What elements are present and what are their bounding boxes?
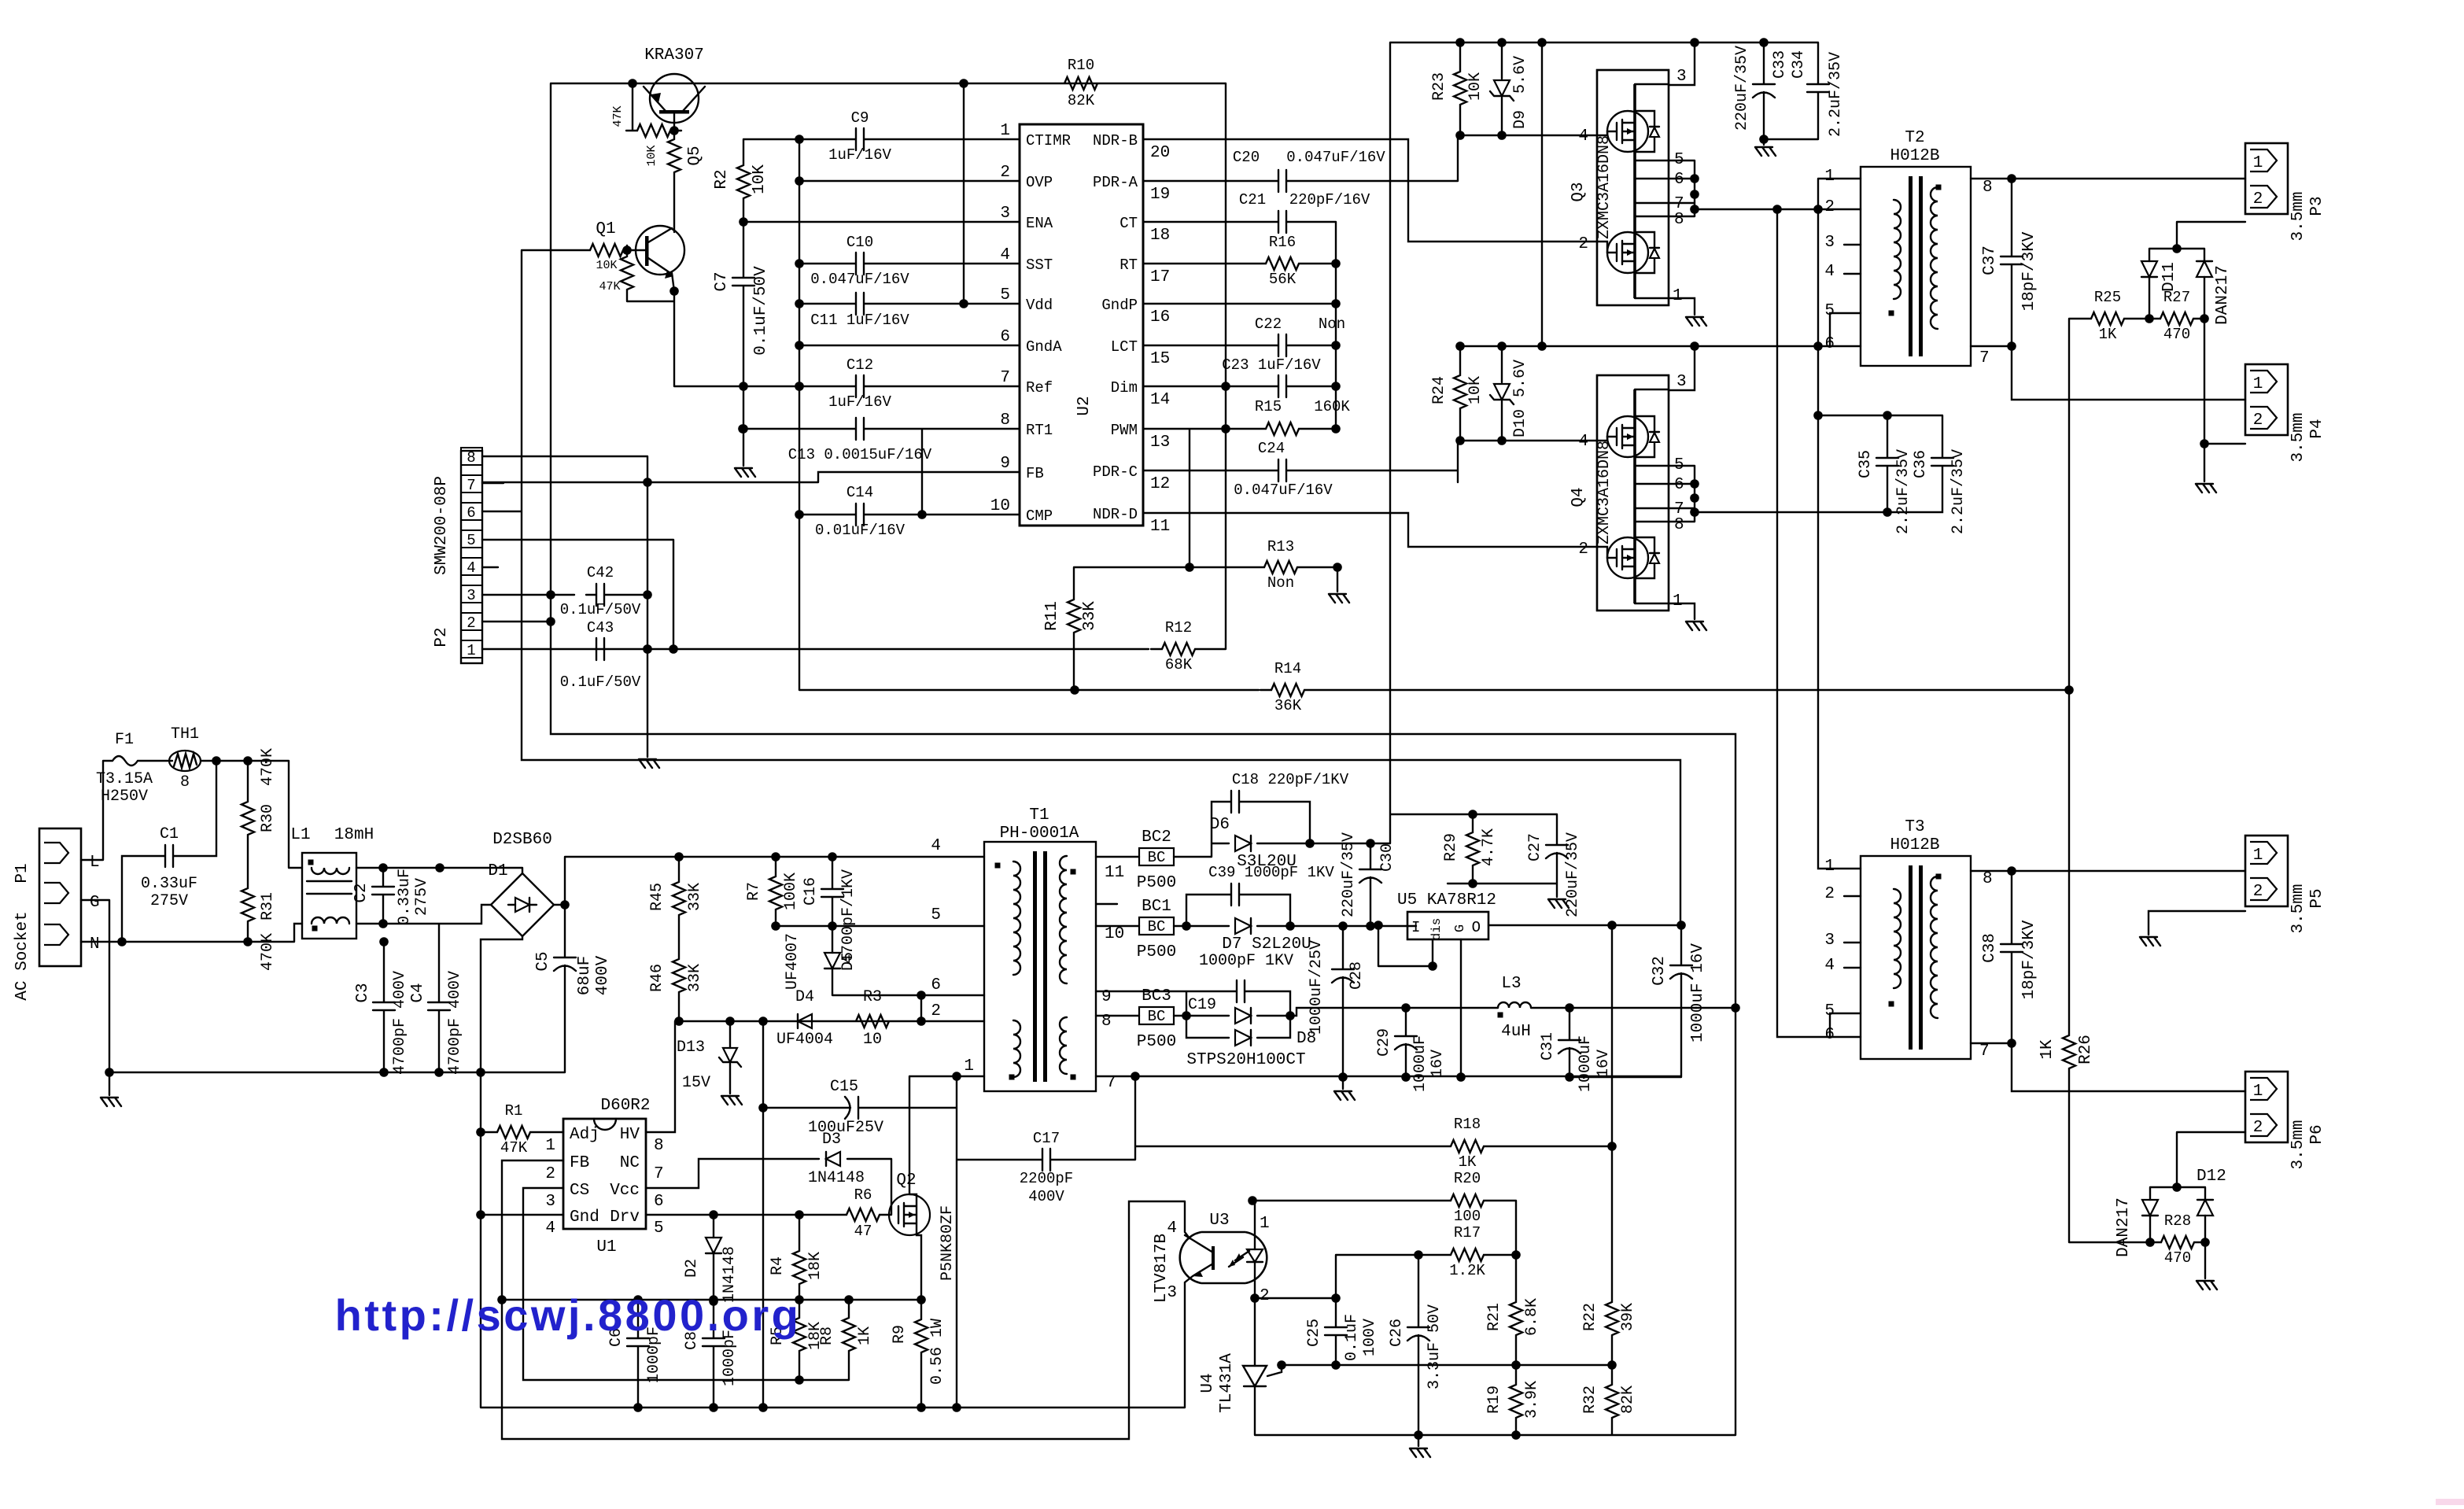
svg-text:16V: 16V [1595,1050,1613,1078]
svg-text:C37: C37 [1981,245,1999,275]
svg-text:4700pF 400V: 4700pF 400V [446,971,464,1075]
svg-text:2: 2 [467,614,475,632]
svg-text:NDR-D: NDR-D [1093,506,1138,523]
svg-text:Dim: Dim [1111,379,1138,397]
svg-text:4: 4 [1167,1219,1177,1238]
svg-text:R24: R24 [1430,376,1448,404]
svg-text:D8: D8 [1297,1030,1316,1048]
svg-text:16V: 16V [1429,1050,1447,1078]
svg-text:1K: 1K [1459,1153,1477,1171]
svg-text:1000uF 16V: 1000uF 16V [1689,943,1707,1042]
svg-text:C42: C42 [587,564,614,581]
svg-text:C26: C26 [1388,1319,1406,1347]
svg-text:19: 19 [1150,186,1170,204]
svg-text:6: 6 [931,976,941,994]
svg-text:AC Socket: AC Socket [13,911,31,1000]
svg-text:3: 3 [1676,373,1687,391]
svg-text:1: 1 [964,1057,974,1075]
svg-text:0.01uF/16V: 0.01uF/16V [815,522,906,539]
svg-text:ZXMC3A16DN8: ZXMC3A16DN8 [1595,135,1614,239]
svg-text:C4: C4 [409,983,427,1002]
svg-text:http://scwj.8800.org: http://scwj.8800.org [335,1290,802,1340]
svg-text:BC3: BC3 [1142,987,1171,1005]
svg-text:36K: 36K [1274,697,1302,714]
svg-text:7: 7 [1106,1074,1116,1092]
svg-text:P1: P1 [13,863,31,883]
svg-text:C23 1uF/16V: C23 1uF/16V [1222,356,1321,374]
svg-text:16: 16 [1150,308,1170,327]
svg-text:7: 7 [1000,369,1010,387]
svg-text:C32: C32 [1651,956,1669,986]
svg-text:C33: C33 [1771,50,1789,79]
svg-text:10K: 10K [645,145,658,166]
svg-text:D12: D12 [2197,1168,2226,1186]
svg-text:ZXMC3A16DN8: ZXMC3A16DN8 [1595,441,1614,544]
svg-text:C22: C22 [1255,315,1282,333]
svg-text:3.5mm: 3.5mm [2289,884,2307,933]
svg-text:1: 1 [1673,592,1683,611]
svg-text:47: 47 [854,1223,872,1240]
svg-text:18: 18 [1150,227,1170,245]
svg-text:CTIMR: CTIMR [1026,132,1071,149]
svg-text:C12: C12 [847,356,873,374]
svg-text:C3: C3 [354,983,372,1002]
svg-text:470: 470 [2164,1249,2191,1267]
svg-text:R12: R12 [1165,619,1192,636]
svg-text:1000uF: 1000uF [1577,1035,1595,1092]
svg-text:C7: C7 [713,271,731,291]
svg-text:R14: R14 [1274,660,1301,677]
svg-text:BC1: BC1 [1142,898,1171,916]
svg-text:R32: R32 [1581,1385,1599,1414]
svg-text:SMW200-08P: SMW200-08P [433,476,451,575]
svg-text:1uF/16V: 1uF/16V [828,393,891,411]
svg-text:2: 2 [545,1165,555,1183]
svg-text:7: 7 [1979,1042,1990,1061]
svg-text:G: G [90,894,100,912]
svg-text:T1: T1 [1029,806,1049,825]
svg-text:47K: 47K [599,280,620,293]
svg-text:D7 S2L20U: D7 S2L20U [1222,935,1311,954]
svg-text:4: 4 [1824,263,1835,281]
svg-text:10K: 10K [751,164,769,194]
svg-text:6: 6 [654,1193,664,1211]
svg-text:R7: R7 [745,882,763,901]
svg-text:P4: P4 [2308,419,2326,438]
svg-text:C21: C21 [1239,191,1266,208]
svg-text:UF4007: UF4007 [784,933,802,990]
svg-text:33K: 33K [686,883,704,911]
svg-text:P5: P5 [2308,888,2326,908]
svg-text:R23: R23 [1430,72,1448,101]
svg-text:4: 4 [931,837,941,855]
svg-text:10K: 10K [1466,72,1485,101]
svg-text:20: 20 [1150,144,1170,162]
svg-text:9: 9 [1000,455,1010,473]
svg-text:R21: R21 [1485,1303,1503,1331]
svg-text:2200pF: 2200pF [1020,1170,1073,1187]
svg-text:18pF/3KV: 18pF/3KV [2020,231,2038,311]
svg-text:Non: Non [1267,574,1294,592]
svg-text:15V: 15V [682,1074,710,1092]
svg-text:PH-0001A: PH-0001A [1000,825,1079,843]
svg-text:dis: dis [1429,918,1444,941]
svg-text:0.047uF/16V: 0.047uF/16V [810,271,909,288]
svg-text:5: 5 [1674,456,1684,474]
svg-text:C36: C36 [1912,450,1930,478]
svg-text:P3: P3 [2308,196,2326,216]
svg-text:470: 470 [2163,326,2190,343]
svg-text:H012B: H012B [1890,147,1939,165]
svg-text:C16: C16 [802,877,820,906]
svg-text:100K: 100K [782,873,800,910]
svg-text:13: 13 [1150,434,1170,452]
svg-text:0.047uF/16V: 0.047uF/16V [1234,481,1333,499]
svg-text:4700pF/1KV: 4700pF/1KV [839,869,858,964]
svg-text:4uH: 4uH [1501,1023,1531,1041]
svg-text:C9: C9 [851,109,869,127]
svg-text:C27: C27 [1526,833,1544,861]
svg-text:R22: R22 [1581,1303,1599,1331]
svg-text:N: N [90,935,100,954]
svg-text:P2: P2 [433,627,451,647]
svg-text:3: 3 [1676,68,1687,86]
svg-text:CT: CT [1119,215,1138,232]
svg-text:C31: C31 [1539,1032,1557,1061]
svg-text:1: 1 [2253,154,2263,172]
svg-text:Drv: Drv [610,1208,640,1227]
svg-text:1: 1 [1824,858,1835,876]
svg-text:6: 6 [1824,335,1835,353]
svg-text:U2: U2 [1075,396,1094,415]
svg-text:2: 2 [2253,190,2263,208]
svg-text:2: 2 [1578,235,1588,253]
svg-text:CMP: CMP [1026,507,1053,525]
svg-text:4: 4 [1578,433,1588,451]
svg-text:R17: R17 [1454,1224,1481,1242]
svg-text:1: 1 [1673,287,1683,305]
svg-text:4: 4 [1578,127,1588,146]
svg-text:H250V: H250V [101,788,148,806]
svg-text:R1: R1 [505,1102,523,1120]
svg-text:0.1uF/50V: 0.1uF/50V [560,673,641,691]
svg-text:D2SB60: D2SB60 [492,831,552,849]
svg-text:5: 5 [1674,151,1684,169]
svg-text:F1: F1 [115,731,134,749]
svg-text:220uF/35V: 220uF/35V [1564,832,1582,917]
svg-text:6: 6 [1824,1026,1835,1044]
svg-text:C25: C25 [1305,1319,1323,1347]
svg-text:1: 1 [467,642,475,659]
svg-text:10K: 10K [1466,376,1485,404]
svg-text:C24: C24 [1258,440,1285,457]
svg-text:BC2: BC2 [1142,828,1171,847]
svg-text:3: 3 [1167,1284,1177,1302]
svg-text:0.047uF/16V: 0.047uF/16V [1286,149,1385,166]
svg-text:I: I [1411,919,1420,936]
svg-text:33K: 33K [1081,601,1099,631]
svg-text:C30: C30 [1378,843,1396,872]
svg-text:5.6V: 5.6V [1511,56,1529,94]
svg-text:LCT: LCT [1111,338,1138,356]
svg-text:C35: C35 [1857,450,1875,478]
svg-text:7: 7 [467,477,475,494]
svg-text:Vcc: Vcc [610,1182,640,1200]
svg-text:D6: D6 [1210,816,1230,834]
svg-text:C20: C20 [1233,149,1260,166]
svg-text:R15: R15 [1255,398,1282,415]
svg-text:R26: R26 [2077,1035,2095,1064]
svg-text:R29: R29 [1442,833,1460,861]
svg-text:12: 12 [1150,475,1170,493]
svg-text:D1: D1 [488,862,507,880]
svg-text:D2: D2 [683,1259,701,1278]
svg-text:D10: D10 [1511,409,1529,437]
svg-text:5.6V: 5.6V [1511,360,1529,397]
svg-text:2: 2 [2253,411,2263,430]
svg-text:P500: P500 [1137,943,1176,961]
svg-text:Gnd: Gnd [570,1208,599,1227]
svg-text:15: 15 [1150,350,1170,368]
svg-text:R18: R18 [1454,1116,1481,1133]
svg-text:1: 1 [1824,168,1835,186]
svg-text:6: 6 [1674,476,1684,494]
svg-text:L: L [90,854,100,872]
svg-text:C34: C34 [1790,50,1808,79]
svg-text:ENA: ENA [1026,215,1053,232]
svg-text:9: 9 [1101,988,1112,1006]
svg-text:6: 6 [467,504,475,522]
svg-text:2.2uF/35V: 2.2uF/35V [1894,449,1913,534]
svg-text:56K: 56K [1269,271,1297,288]
svg-text:2: 2 [1260,1287,1270,1305]
svg-text:FB: FB [570,1154,589,1172]
svg-text:10: 10 [863,1031,882,1049]
svg-text:RT1: RT1 [1026,422,1053,439]
svg-text:R45: R45 [648,883,666,911]
svg-text:4: 4 [1000,246,1010,264]
svg-text:GndA: GndA [1026,338,1062,356]
svg-text:10: 10 [990,497,1010,515]
svg-text:8: 8 [1983,870,1993,888]
svg-text:1000uF/25V: 1000uF/25V [1308,940,1326,1035]
svg-text:C2: C2 [352,883,371,902]
svg-text:2: 2 [2253,883,2263,901]
svg-text:0.33uF: 0.33uF [141,875,197,893]
svg-text:82K: 82K [1068,92,1095,109]
svg-text:8: 8 [467,449,475,467]
svg-text:D13: D13 [677,1039,705,1057]
svg-text:NC: NC [620,1154,640,1172]
svg-text:Adj: Adj [570,1126,599,1144]
svg-text:1uF/16V: 1uF/16V [828,146,891,164]
svg-text:0.1uF/50V: 0.1uF/50V [752,266,770,356]
svg-text:Non: Non [1319,315,1345,333]
svg-text:STPS20H100CT: STPS20H100CT [1186,1051,1305,1069]
svg-text:0.33uF: 0.33uF [396,869,414,925]
svg-text:33K: 33K [686,964,704,992]
svg-text:4: 4 [545,1219,555,1238]
svg-text:R20: R20 [1454,1170,1481,1187]
svg-text:NDR-B: NDR-B [1093,132,1138,149]
svg-text:6.8K: 6.8K [1523,1298,1541,1336]
svg-text:R28: R28 [2164,1212,2191,1230]
svg-text:470K: 470K [259,933,277,971]
svg-text:R27: R27 [2163,289,2190,306]
svg-text:1: 1 [2253,847,2263,865]
svg-text:C19: C19 [1188,996,1216,1014]
svg-text:Q3: Q3 [1570,182,1588,201]
svg-text:7: 7 [654,1165,664,1183]
svg-text:PDR-C: PDR-C [1093,463,1138,481]
svg-text:R25: R25 [2094,289,2121,306]
svg-text:TH1: TH1 [171,725,199,743]
svg-text:4: 4 [467,559,475,577]
svg-text:D4: D4 [795,988,814,1006]
svg-text:R3: R3 [863,988,882,1006]
svg-text:C17: C17 [1033,1130,1060,1147]
svg-text:BC: BC [1148,849,1166,866]
svg-text:G: G [1453,924,1468,932]
svg-text:D11: D11 [2160,262,2178,292]
svg-text:4: 4 [1824,957,1835,975]
svg-text:D3: D3 [822,1131,841,1149]
svg-text:8: 8 [1674,516,1684,534]
svg-text:Q2: Q2 [896,1171,916,1190]
svg-text:R16: R16 [1269,234,1296,251]
svg-text:470K: 470K [259,748,277,786]
svg-text:C14: C14 [847,484,873,501]
svg-text:L1: L1 [290,826,310,844]
svg-text:5: 5 [931,906,941,924]
svg-text:10K: 10K [596,259,617,272]
svg-text:275V: 275V [150,892,188,910]
svg-text:Ref: Ref [1026,379,1053,397]
svg-text:R9: R9 [891,1325,909,1344]
svg-text:3: 3 [1824,932,1835,950]
svg-text:14: 14 [1150,391,1170,409]
svg-text:0.1uF/50V: 0.1uF/50V [560,601,641,618]
svg-text:220pF/16V: 220pF/16V [1289,191,1370,208]
svg-text:KRA307: KRA307 [644,46,704,65]
svg-text:82K: 82K [1619,1385,1637,1414]
svg-text:5: 5 [1824,1002,1835,1020]
svg-text:2: 2 [931,1002,941,1020]
svg-text:U1: U1 [596,1238,616,1256]
svg-text:T3.15A: T3.15A [96,770,153,788]
svg-text:6: 6 [1674,171,1684,189]
svg-text:R13: R13 [1267,538,1294,555]
svg-text:C5: C5 [534,951,552,971]
svg-text:8: 8 [1983,179,1993,197]
svg-text:C1: C1 [160,825,179,843]
svg-text:P5NK80ZF: P5NK80ZF [939,1205,957,1281]
svg-text:C11 1uF/16V: C11 1uF/16V [810,312,909,329]
svg-text:5: 5 [1000,286,1010,304]
svg-text:1: 1 [545,1137,555,1155]
svg-text:1000pF 1KV: 1000pF 1KV [1199,952,1293,970]
svg-text:47K: 47K [500,1139,528,1157]
svg-text:3: 3 [1824,234,1835,252]
svg-text:100uF25V: 100uF25V [808,1119,883,1137]
svg-text:C38: C38 [1981,933,1999,963]
svg-text:4.7K: 4.7K [1480,828,1498,866]
svg-text:HV: HV [620,1126,640,1144]
svg-text:T3: T3 [1905,818,1924,836]
svg-text:400V: 400V [1028,1188,1064,1205]
svg-text:1K: 1K [2038,1039,2056,1060]
svg-text:3.5mm: 3.5mm [2289,191,2307,241]
svg-text:C18 220pF/1KV: C18 220pF/1KV [1232,771,1349,788]
svg-text:TL431A: TL431A [1218,1353,1236,1413]
svg-text:D9: D9 [1511,110,1529,129]
svg-text:3.5mm: 3.5mm [2289,412,2307,462]
svg-text:3: 3 [545,1193,555,1211]
svg-text:Q4: Q4 [1570,487,1588,507]
svg-text:R11: R11 [1043,601,1061,631]
svg-text:P500: P500 [1137,874,1176,892]
svg-text:1: 1 [2253,375,2263,393]
svg-text:C28: C28 [1348,961,1366,990]
svg-text:1K: 1K [2099,326,2117,343]
svg-text:0.56 1W: 0.56 1W [928,1319,946,1385]
svg-text:C15: C15 [830,1078,858,1096]
svg-text:100: 100 [1454,1208,1481,1225]
svg-text:UF4004: UF4004 [776,1031,833,1049]
svg-text:6: 6 [1000,328,1010,346]
svg-text:1000uF: 1000uF [1411,1035,1429,1092]
svg-text:PDR-A: PDR-A [1093,174,1138,191]
svg-text:D5: D5 [839,952,858,971]
svg-text:2: 2 [1578,541,1588,559]
svg-text:18K: 18K [806,1252,824,1280]
svg-text:18pF/3KV: 18pF/3KV [2020,920,2038,999]
svg-text:2: 2 [1824,885,1835,903]
svg-text:3: 3 [1000,205,1010,223]
svg-text:1: 1 [2253,1083,2263,1101]
svg-text:100V: 100V [1361,1319,1379,1356]
svg-text:39K: 39K [1619,1303,1637,1331]
svg-text:U5 KA78R12: U5 KA78R12 [1397,891,1496,909]
svg-text:5: 5 [467,532,475,549]
svg-text:C13 0.0015uF/16V: C13 0.0015uF/16V [788,446,932,463]
svg-text:R2: R2 [713,169,731,189]
svg-text:C29: C29 [1375,1028,1393,1057]
svg-text:11: 11 [1105,864,1124,882]
svg-text:Vdd: Vdd [1026,297,1053,314]
svg-text:1N4148: 1N4148 [808,1169,865,1187]
svg-text:DAN217: DAN217 [2115,1197,2133,1257]
svg-text:R10: R10 [1068,57,1094,74]
svg-text:R4: R4 [769,1256,787,1275]
svg-text:C10: C10 [847,234,873,251]
svg-text:10: 10 [1105,925,1124,943]
svg-text:R31: R31 [259,892,277,921]
svg-text:2.2uF/35V: 2.2uF/35V [1827,52,1845,137]
svg-text:U4: U4 [1199,1373,1217,1393]
svg-text:5: 5 [654,1219,664,1238]
svg-text:U3: U3 [1209,1212,1229,1230]
svg-text:2: 2 [1000,164,1010,182]
svg-text:8: 8 [1674,211,1684,229]
svg-text:R8: R8 [818,1326,836,1345]
svg-text:8: 8 [1101,1013,1112,1031]
svg-text:5: 5 [1824,302,1835,320]
svg-text:R46: R46 [648,964,666,992]
svg-text:18mH: 18mH [334,826,374,844]
svg-text:2: 2 [1824,198,1835,216]
svg-text:P6: P6 [2308,1124,2326,1144]
